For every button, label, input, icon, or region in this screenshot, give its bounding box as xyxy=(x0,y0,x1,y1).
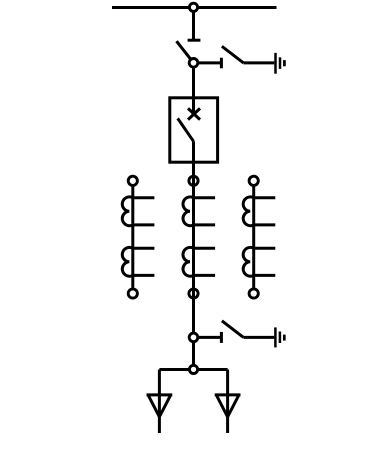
W2 tap 3 xyxy=(194,247,216,250)
W2 tap 4 xyxy=(194,274,216,277)
transformer W2 top terminal (line passes through) xyxy=(189,176,198,185)
W3 coil group 1 xyxy=(243,197,253,226)
W1 tap 4 xyxy=(133,274,155,277)
right feeder branch wire xyxy=(226,370,229,434)
right feeder arrow bar xyxy=(215,393,241,396)
W1 top terminal circle xyxy=(128,176,137,185)
W1 tap 1 xyxy=(133,196,155,199)
earthing switch ES1 fixed contact bar xyxy=(220,58,223,69)
earthing switch ES1 blade (open) xyxy=(222,46,244,63)
disconnector QS1 blade (open) xyxy=(177,41,194,63)
disconnector QS1 fixed contact bar xyxy=(188,39,201,42)
W3 tap 2 xyxy=(254,223,276,226)
wire node to circuit breaker xyxy=(192,63,195,114)
main vertical feeder wire xyxy=(192,141,195,369)
transformer winding W1 (left) xyxy=(122,176,154,298)
circuit breaker contact X xyxy=(188,108,200,119)
right feeder arrow triangle xyxy=(217,396,239,417)
busbar xyxy=(112,6,277,9)
W2 tap 2 xyxy=(194,223,216,226)
W3 tap 3 xyxy=(254,247,276,250)
transformer winding W2 (center) coils xyxy=(183,197,215,276)
W1 tap 3 xyxy=(133,247,155,250)
busbar tap node N1 xyxy=(189,3,197,11)
wire busbar node to disconnector contact xyxy=(192,7,195,40)
wire node to earthing switch ES2 xyxy=(194,336,221,339)
earthing node N3 xyxy=(189,333,198,342)
W3 top terminal circle xyxy=(249,176,258,185)
W1 coil group 2 xyxy=(122,247,132,276)
W1 coil group 1 xyxy=(122,197,132,226)
left feeder branch wire xyxy=(158,370,161,434)
W3 coil group 2 xyxy=(243,247,253,276)
W3 tap 4 xyxy=(254,274,276,277)
W1 vertical conductor xyxy=(131,181,134,294)
splitter bus wire xyxy=(159,368,227,371)
W1 bottom terminal circle xyxy=(128,289,137,298)
W1 tap 2 xyxy=(133,223,155,226)
W3 vertical conductor xyxy=(252,181,255,294)
splitter node N4 xyxy=(189,365,197,373)
W2 tap 1 xyxy=(194,196,216,199)
ground symbol G1 xyxy=(276,53,285,74)
wire node to earthing switch ES1 xyxy=(194,61,221,64)
wire ES2 to ground xyxy=(244,336,275,339)
earthing switch ES2 blade (open) xyxy=(222,321,244,338)
W2 coil group 1 xyxy=(183,197,193,226)
transformer winding W3 (right) xyxy=(243,176,275,298)
circuit breaker blade xyxy=(178,118,194,141)
transformer W2 bottom terminal (line passes through) xyxy=(189,289,198,298)
ground symbol G2 xyxy=(275,327,284,347)
W3 bottom terminal circle xyxy=(249,289,258,298)
left feeder arrow triangle xyxy=(149,396,171,417)
wire ES1 to ground xyxy=(244,61,275,64)
earthing switch ES2 fixed contact bar xyxy=(220,332,223,343)
disconnector node N2 xyxy=(189,59,198,68)
left feeder arrow bar xyxy=(147,393,173,396)
circuit breaker box xyxy=(170,98,218,162)
W3 tap 1 xyxy=(254,196,276,199)
W2 coil group 2 xyxy=(183,247,193,276)
